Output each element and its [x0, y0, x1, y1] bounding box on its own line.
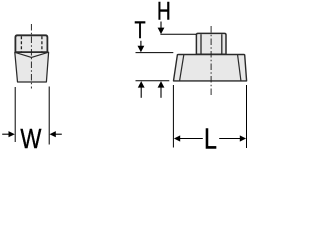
- bottom extension line (flange bottom level): [136, 80, 170, 82]
- T extension line (flange top level): [136, 52, 174, 54]
- flange inner slant left: [180, 55, 184, 81]
- hidden hole line right: [41, 36, 43, 51]
- H up arrow: [160, 87, 162, 98]
- W arrow left: [2, 133, 9, 135]
- extension line L left: [172, 85, 174, 148]
- hidden hole line left: [20, 36, 22, 51]
- H down arrow: [160, 22, 162, 29]
- extension line L right: [246, 85, 248, 148]
- T down arrow: [140, 41, 142, 47]
- flange inner slant right: [238, 55, 241, 81]
- boss inner line left: [200, 34, 202, 54]
- tapered body: [15, 52, 49, 82]
- svg-text:W: W: [20, 123, 41, 150]
- centerline right view: [210, 26, 212, 96]
- L arrow right: [219, 138, 240, 140]
- chamfer V: [15, 52, 48, 57]
- boss: [196, 33, 226, 54]
- svg-text:H: H: [157, 0, 171, 25]
- extension line W left: [14, 87, 16, 142]
- W arrow right: [55, 133, 62, 135]
- svg-text:T: T: [134, 15, 145, 43]
- svg-text:L: L: [204, 122, 217, 150]
- hex head box: [15, 35, 47, 52]
- L arrow left: [180, 138, 203, 140]
- H extension line (boss top level): [160, 33, 196, 35]
- boss inner line right: [221, 34, 223, 54]
- extension line W right: [48, 87, 50, 145]
- centerline left view: [30, 24, 32, 89]
- T up arrow: [140, 87, 142, 98]
- flange: [174, 55, 247, 81]
